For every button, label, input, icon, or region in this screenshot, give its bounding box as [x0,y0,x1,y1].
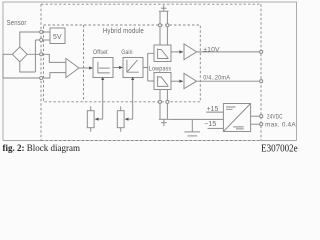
offset stage box [93,49,113,78]
adjust wire R1 to offset [102,79,104,119]
svg-text:0/4..20mA: 0/4..20mA [203,75,230,82]
wire 24V terminal b [251,123,260,125]
op-amp U1 input amplifier [66,58,79,77]
terminal voltage out [260,50,263,53]
wire bridge-right to T3 to amp [27,54,66,62]
wire -15 stub [208,127,224,129]
wire offset to gain [113,67,120,69]
arrow into gain [119,66,123,69]
svg-text:Lowpass: Lowpass [149,65,172,72]
terminal hybrid bottom b [166,100,169,103]
svg-text:+15: +15 [207,106,219,113]
svg-text:E307002e: E307002e [261,143,298,154]
wire +15 stub [206,111,223,113]
svg-text:−15: −15 [204,121,216,128]
wire U1 out to offset [79,67,90,69]
ground [184,119,200,135]
hybrid module partition [83,25,85,102]
5V supply box [50,28,65,44]
hybrid module dashed box [44,25,201,102]
wire F1 to U2 [171,51,180,53]
op-amp U3 current output [184,73,197,88]
terminal 24V a [260,115,263,118]
svg-text:Hybrid module: Hybrid module [103,28,144,35]
arrow into offset [89,66,93,69]
terminal T1 [40,30,43,33]
wire T2 to 5V [35,39,50,41]
lowpass filter F1 [154,45,171,62]
terminal T3 [40,53,43,56]
svg-text:Sensor: Sensor [7,18,27,27]
terminal T4 [40,76,43,79]
wire F2 to U3 [171,80,180,82]
trimmer R1 offset adjust [87,106,94,132]
trimmer R2 gain adjust [117,106,124,132]
terminal hybrid top a [158,24,161,27]
wire 0V common [170,118,224,120]
figure frame [3,2,297,141]
wire bridge-left to frame [3,53,12,55]
DC/DC converter U4 [223,104,250,132]
wire U2 to voltage terminal [197,51,260,53]
lowpass filter F2 [154,73,171,90]
bridge sensor S1 [12,47,27,62]
svg-text:Offset: Offset [93,49,108,56]
wire U3 to current terminal [197,80,260,82]
svg-text:max. 0.4A: max. 0.4A [265,122,296,129]
svg-text:fig. 2: Block diagram: fig. 2: Block diagram [3,143,81,153]
terminal 24V b [260,123,263,126]
wire gain out split [143,53,154,81]
terminal T2 [40,38,43,41]
terminal hybrid bottom a [158,100,161,103]
wire bridge-top to T1 and 5V [20,32,50,47]
device enclosure dashed box [41,4,261,140]
terminal hybrid top b [166,24,169,27]
wire T4 to amp [3,73,66,78]
adjust wire R2 to gain [132,79,134,119]
svg-text:5V: 5V [53,34,62,41]
wire 24V terminal a [251,115,260,117]
wire junction column [34,40,36,72]
svg-text:Gain: Gain [121,49,133,56]
supply element bottom [159,90,170,127]
sensor left wire bus [2,54,4,78]
gain stage box [121,49,143,78]
terminal current out [260,80,263,83]
svg-text:24VDC: 24VDC [267,113,283,120]
wire bridge-bottom loop [20,62,36,72]
op-amp U2 voltage output [184,44,197,60]
svg-text:±10V: ±10V [203,47,220,54]
supply element top [159,5,169,45]
